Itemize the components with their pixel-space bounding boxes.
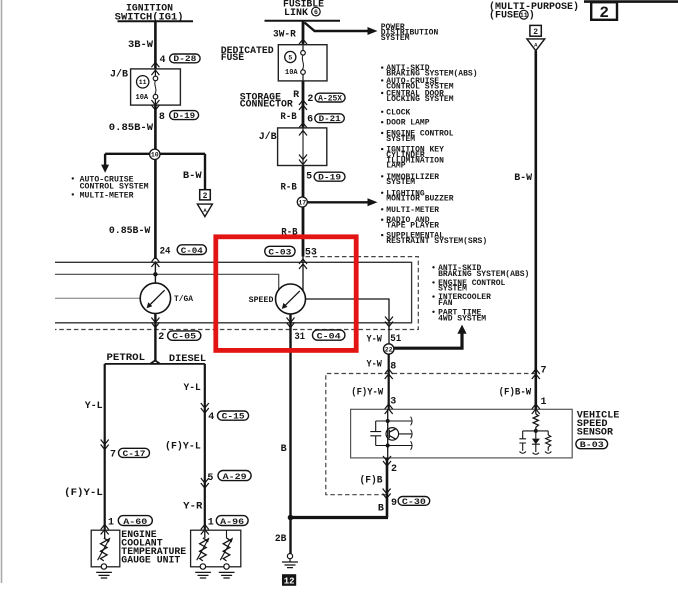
svg-text:J/B: J/B: [110, 69, 128, 81]
svg-text:J/B: J/B: [259, 131, 277, 143]
svg-text:Y-W: Y-W: [367, 359, 382, 370]
svg-text:A-25X: A-25X: [318, 94, 342, 103]
svg-text:MONITOR BUZZER: MONITOR BUZZER: [386, 195, 453, 204]
svg-text:2B: 2B: [275, 534, 287, 545]
svg-text:Y-R: Y-R: [183, 501, 202, 512]
svg-text:7: 7: [541, 365, 547, 376]
svg-text:A-96: A-96: [220, 518, 244, 527]
svg-text:2: 2: [307, 94, 313, 105]
svg-text:SYSTEM: SYSTEM: [386, 178, 415, 187]
svg-text:C-15: C-15: [222, 413, 245, 422]
svg-text:SENSOR: SENSOR: [577, 428, 613, 439]
svg-text:D-28: D-28: [173, 55, 196, 64]
svg-text:5: 5: [306, 172, 312, 183]
svg-text:24: 24: [160, 246, 171, 257]
svg-text:C-03: C-03: [268, 249, 291, 258]
svg-text:B-03: B-03: [580, 441, 604, 450]
svg-text:T/GA: T/GA: [174, 295, 193, 304]
svg-text:11: 11: [139, 79, 147, 86]
svg-text:2: 2: [391, 464, 397, 475]
svg-text:B: B: [281, 444, 287, 455]
svg-text:0.85B-W: 0.85B-W: [109, 123, 153, 134]
svg-text:LOCKING SYSTEM: LOCKING SYSTEM: [386, 95, 453, 104]
svg-text:(F)Y-L: (F)Y-L: [165, 441, 201, 453]
svg-text:17: 17: [298, 199, 306, 206]
svg-text:(F)Y-L: (F)Y-L: [64, 487, 103, 499]
svg-text:7: 7: [110, 450, 116, 461]
svg-text:PETROL: PETROL: [107, 353, 146, 364]
svg-text:B-W: B-W: [514, 173, 532, 184]
svg-text:1: 1: [108, 518, 114, 529]
svg-text:C-30: C-30: [402, 498, 426, 507]
svg-text:LINK: LINK: [284, 8, 308, 19]
svg-text:10A: 10A: [285, 69, 298, 77]
svg-text:A-29: A-29: [223, 473, 247, 482]
svg-text:0.85B-W: 0.85B-W: [109, 226, 150, 237]
svg-text:1: 1: [541, 397, 547, 408]
svg-text:8: 8: [390, 362, 396, 373]
svg-text:6: 6: [307, 115, 313, 126]
svg-text:(F)B: (F)B: [360, 475, 383, 487]
svg-text:C-04: C-04: [317, 332, 341, 341]
svg-text:RESTRAINT SYSTEM(SRS): RESTRAINT SYSTEM(SRS): [386, 237, 487, 246]
svg-text:DOOR LAMP: DOOR LAMP: [386, 119, 429, 128]
svg-text:2: 2: [158, 332, 164, 343]
svg-text:4: 4: [208, 412, 214, 423]
svg-text:(FUSE: (FUSE: [489, 9, 519, 21]
svg-text:3B-W: 3B-W: [128, 40, 153, 51]
svg-text:1: 1: [208, 518, 214, 529]
svg-text:DIESEL: DIESEL: [169, 354, 206, 365]
svg-text:D-19: D-19: [173, 112, 195, 121]
svg-text:R: R: [293, 90, 299, 101]
svg-text:CLOCK: CLOCK: [386, 108, 410, 117]
svg-text:CONTROL SYSTEM: CONTROL SYSTEM: [80, 182, 149, 191]
svg-text:FAN: FAN: [438, 299, 453, 308]
svg-text:22: 22: [385, 346, 393, 353]
svg-text:Y-W: Y-W: [367, 334, 382, 345]
svg-text:Y-L: Y-L: [85, 401, 103, 412]
svg-text:C-04: C-04: [181, 247, 203, 256]
svg-text:31: 31: [295, 332, 306, 343]
svg-text:C-05: C-05: [172, 333, 196, 342]
svg-text:4WD SYSTEM: 4WD SYSTEM: [438, 314, 486, 323]
svg-text:51: 51: [390, 334, 401, 345]
svg-text:10A: 10A: [136, 94, 149, 102]
svg-text:LAMP: LAMP: [386, 162, 405, 171]
svg-text:10: 10: [151, 152, 159, 159]
svg-text:(F)Y-W: (F)Y-W: [351, 387, 383, 399]
svg-text:C-17: C-17: [123, 450, 146, 459]
svg-text:B: B: [378, 503, 384, 514]
svg-text:GAUGE UNIT: GAUGE UNIT: [121, 555, 180, 566]
svg-text:SYSTEM: SYSTEM: [381, 34, 410, 43]
svg-text:5: 5: [207, 473, 213, 484]
svg-text:R-B: R-B: [281, 182, 297, 193]
svg-text:MULTI-METER: MULTI-METER: [386, 206, 439, 215]
svg-text:R-B: R-B: [280, 112, 296, 123]
svg-text:D-21: D-21: [319, 115, 341, 124]
svg-text:TAPE PLAYER: TAPE PLAYER: [386, 222, 439, 231]
svg-text:MULTI-METER: MULTI-METER: [80, 191, 134, 200]
svg-text:2: 2: [203, 192, 208, 201]
svg-text:12: 12: [284, 577, 295, 587]
svg-text:3: 3: [390, 396, 396, 407]
svg-text:2: 2: [533, 28, 538, 37]
svg-text:B-W: B-W: [183, 171, 202, 182]
svg-text:SPEED: SPEED: [249, 296, 274, 305]
svg-text:3W-R: 3W-R: [273, 30, 296, 41]
svg-text:2: 2: [599, 4, 609, 22]
svg-text:11: 11: [520, 12, 528, 19]
svg-text:D-19: D-19: [318, 174, 341, 183]
svg-text:BRAKING SYSTEM(ABS): BRAKING SYSTEM(ABS): [438, 270, 529, 279]
svg-text:5: 5: [288, 54, 292, 61]
svg-text:9: 9: [391, 498, 397, 509]
svg-text:6: 6: [314, 9, 318, 16]
svg-text:A-60: A-60: [123, 518, 147, 527]
svg-text:FUSE: FUSE: [221, 53, 245, 64]
svg-text:4: 4: [160, 55, 166, 66]
svg-text:Y-L: Y-L: [184, 383, 201, 394]
svg-text:CONNECTOR: CONNECTOR: [240, 100, 293, 111]
svg-text:): ): [529, 9, 535, 21]
svg-text:(F)B-W: (F)B-W: [499, 387, 532, 399]
svg-text:8: 8: [159, 112, 165, 123]
svg-text:SYSTEM: SYSTEM: [386, 135, 415, 144]
